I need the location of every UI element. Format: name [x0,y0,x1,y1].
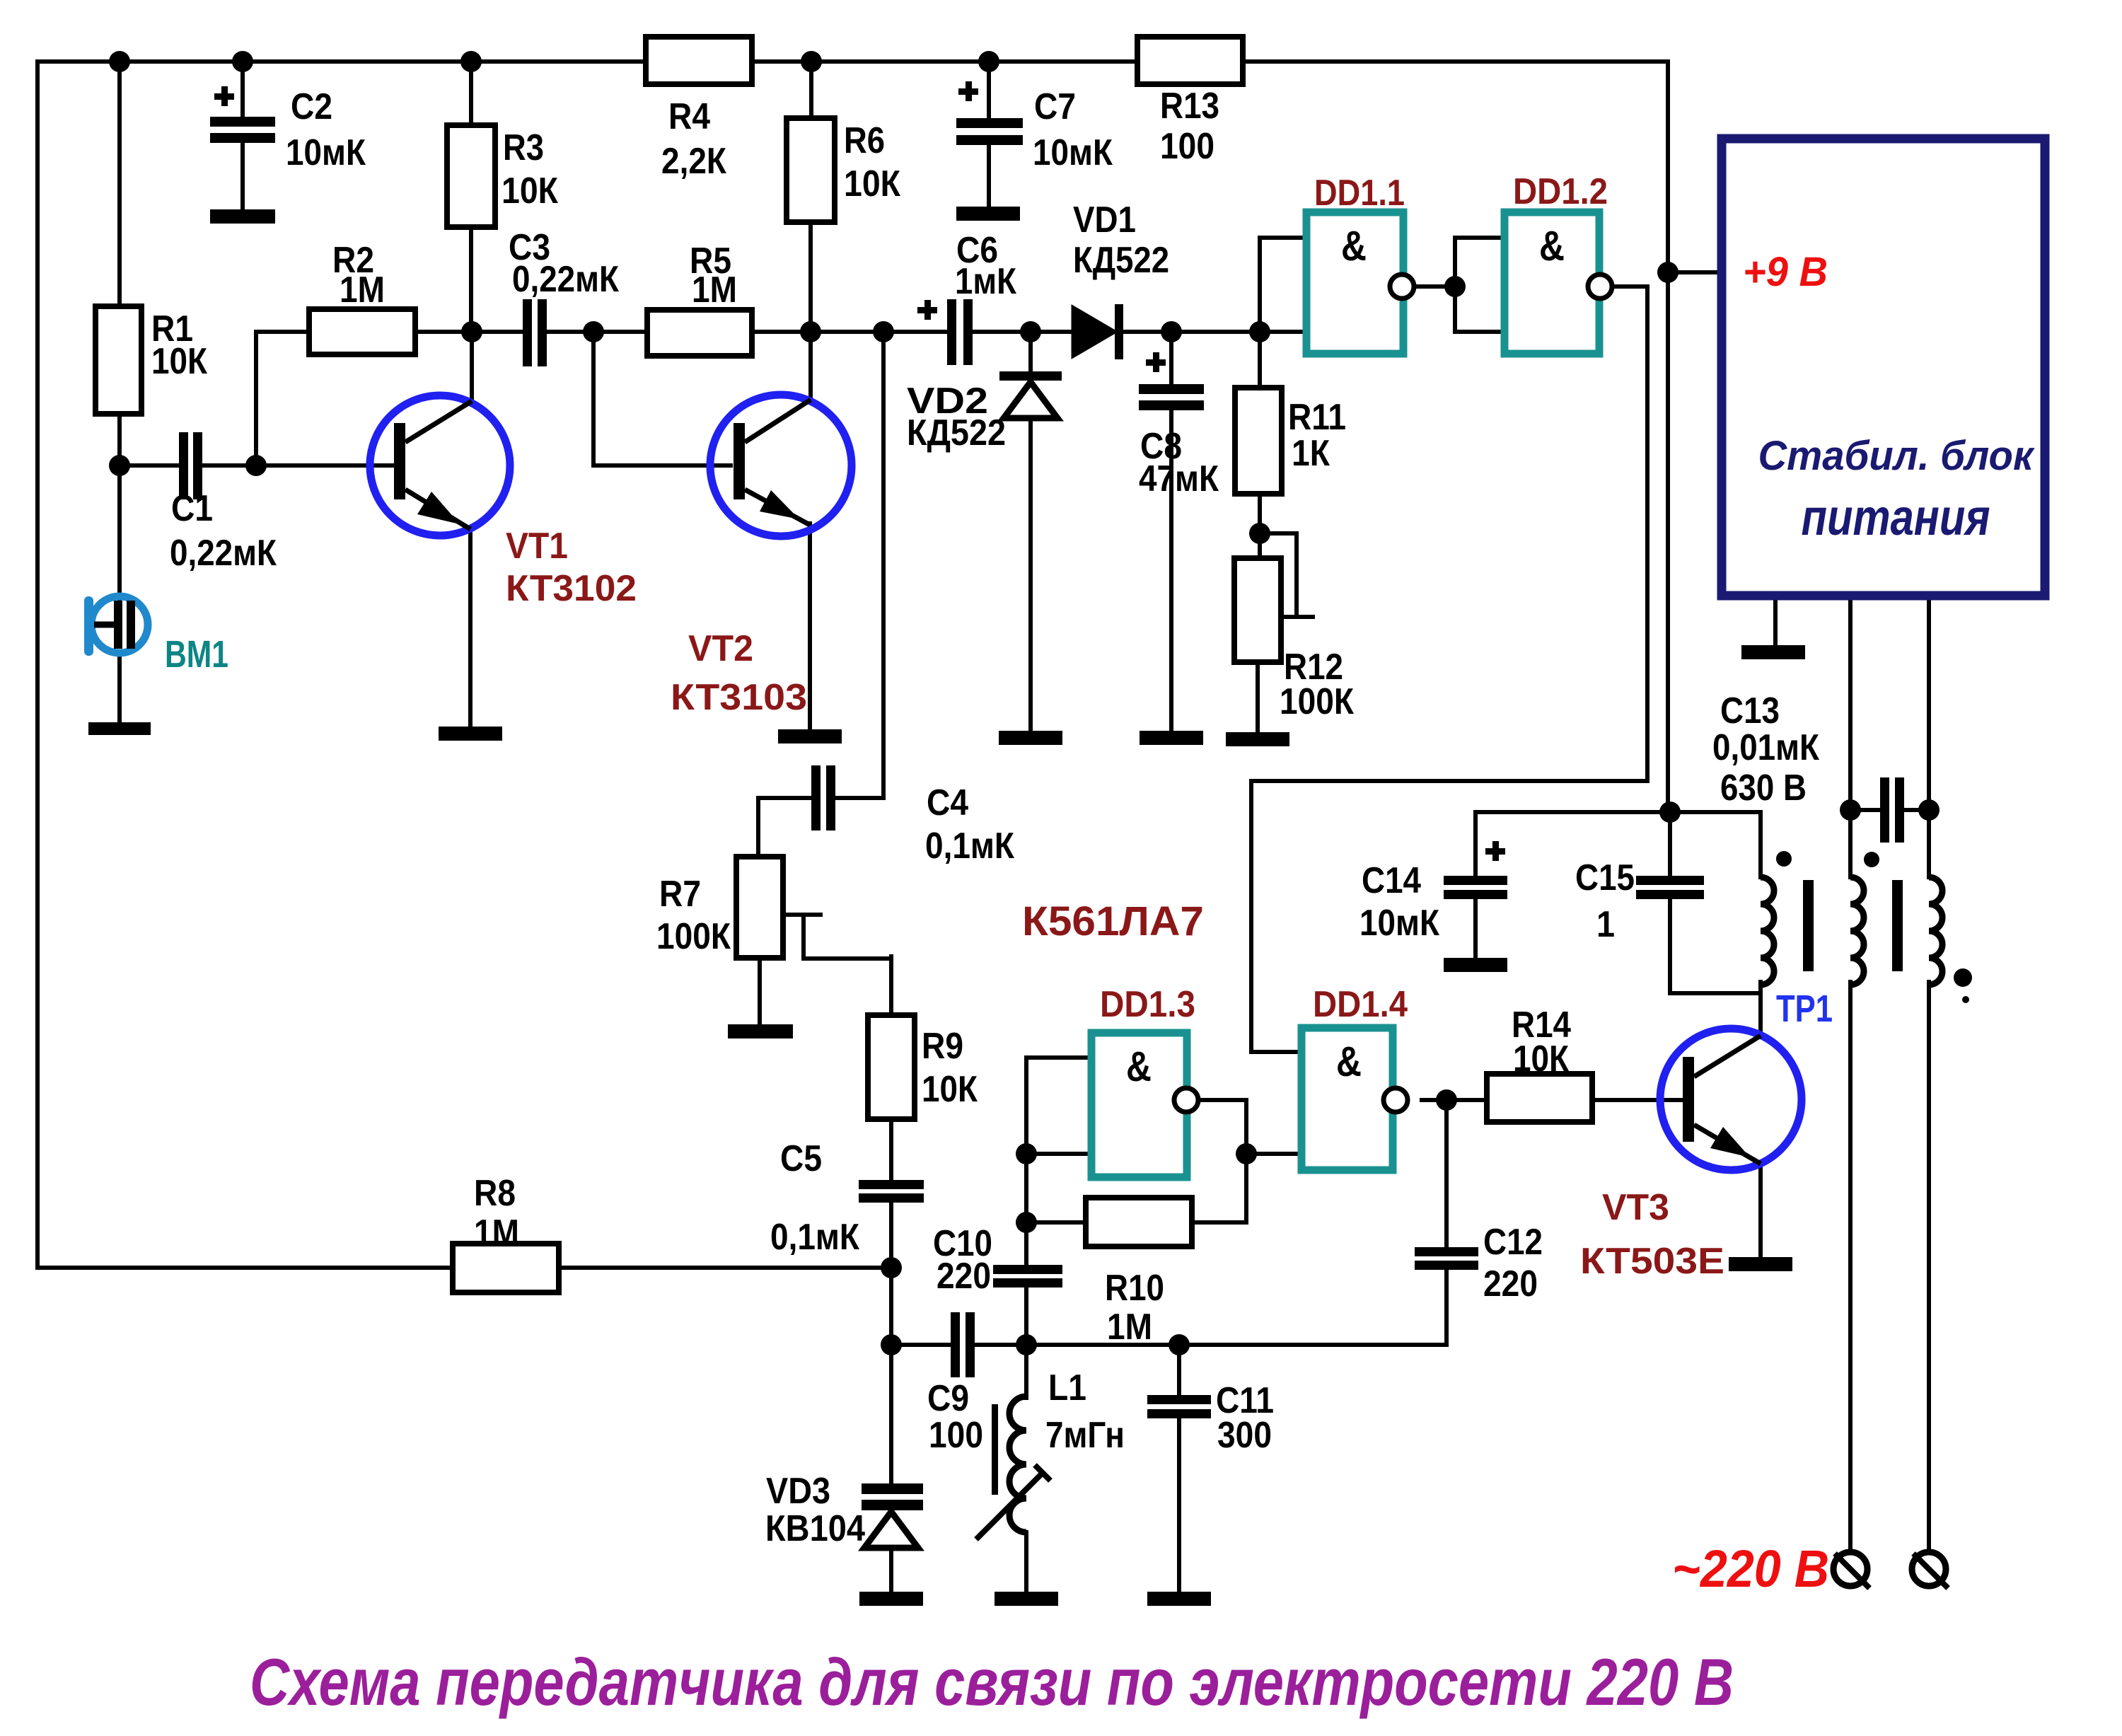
wire C14 bottom to ground [1473,899,1478,958]
capacitor C1 0,22mK plates [179,432,188,499]
svg-text:КТ503Е: КТ503Е [1580,1241,1724,1282]
capacitor C5 0,1mK plates [859,1180,924,1189]
wire C9 left lead [891,1343,951,1347]
wire C15 bottom lead [1668,899,1672,993]
microphone BM1 [84,596,148,656]
wire VT2 collector node to C4 node [811,330,883,334]
wire VD2 anode to ground [1028,418,1033,731]
wire C14 feed from C15 node [1475,812,1670,876]
ground for VT2 [778,729,842,743]
svg-text:100: 100 [929,1415,983,1456]
wire power box left output down (mains L) [1848,596,1853,877]
varicap VD3 triangle [864,1512,918,1548]
svg-text:0,1мК: 0,1мК [925,826,1014,867]
wire R11 node up to DD1.1 input A [1260,238,1303,332]
svg-text:DD1.1: DD1.1 [1314,173,1405,214]
wire C13 right lead [1904,808,1929,812]
node rail-C2 [232,51,253,72]
svg-text:10К: 10К [922,1069,978,1110]
node rail-R6 [801,51,822,72]
NAND gate DD1.1 [1306,212,1414,354]
svg-text:VT3: VT3 [1602,1187,1669,1228]
wire DD1.1 output to tie node [1414,284,1455,289]
wire mic bottom lead to ground [117,652,122,725]
wire C1 to VT1 base node [202,463,256,468]
node A R2/R3/C3/VT1 [461,321,482,342]
wire R6 bottom lead to VT2 collector node [808,222,813,332]
node VD1/R11/DD1.1 [1249,321,1270,342]
svg-text:R8: R8 [474,1173,516,1214]
svg-text:10К: 10К [501,170,558,212]
wire secondary W2 bottom to terminal [1848,982,1853,1552]
wire R5 right lead to VT2 collector node [752,330,811,334]
node TP1 primary polarity dot [1776,851,1792,867]
capacitor C8 47mK plates [1139,384,1204,394]
svg-text:BM1: BM1 [165,633,228,676]
varicap VD3 KV104 plates [862,1483,923,1494]
wire C10 bottom lead [1024,1287,1028,1345]
node C11/C12 [1169,1334,1190,1355]
wire C12 bottom to C11 node [1179,1270,1446,1345]
wire DD1.4 input B stub [1246,1152,1298,1156]
capacitor C2 10mK plates [210,117,275,127]
svg-text:0,22мК: 0,22мК [170,533,277,574]
plus mark C2 [214,86,234,106]
wire VT3 base from R14 [1592,1098,1683,1102]
node C9 left [881,1334,902,1355]
wire signal line node A to C3 [472,330,523,334]
wire VT2 collector [808,332,813,399]
svg-text:VD1: VD1 [1073,199,1136,241]
svg-text:VT2: VT2 [688,628,753,669]
node R8/C5 [881,1257,902,1278]
node R5/R6/VT2-collector [800,321,821,342]
node DD1.1-out tie [1444,276,1466,297]
capacitor C11 300 plates [1147,1395,1211,1404]
transformer TP1 core bar 2 [1892,880,1903,971]
wire mic node to C1 [120,463,179,468]
svg-text:R3: R3 [503,127,544,168]
wire C15 bottom to primary bottom [1670,991,1761,995]
wire R3 top lead from rail [469,62,473,125]
wire C7 to ground [987,145,991,207]
resistor R14 10K [1487,1074,1592,1122]
wire power box ground stub [1773,596,1778,645]
svg-text:C12: C12 [1483,1222,1543,1263]
wire tie node to DD1.2 input B [1455,287,1501,332]
wire R2 right lead to node A [415,330,472,334]
wire C11 top lead [1177,1345,1181,1395]
node TP1 W2 polarity dot [1864,852,1879,867]
node rail-C7 [978,51,999,72]
node C15/C14/TP1 [1659,802,1681,823]
node rail-R1 [109,51,130,72]
wire VD2 cathode to line [1028,332,1033,371]
wire R6 top lead from rail [809,62,813,118]
node C6/VD2 [1020,321,1041,342]
wire DD1.3 input A stub [1026,1055,1088,1060]
node C3/R5/VT2-base [583,321,604,342]
wire R9 bottom to C5 [889,1119,893,1180]
svg-text:питания: питания [1802,490,1990,546]
svg-text:~220 В: ~220 В [1672,1539,1829,1598]
node TP1 W3 polarity dot [1954,968,1972,987]
svg-text:1М: 1М [474,1213,519,1254]
ground for VD2 [999,731,1062,745]
resistor R8 1M [453,1244,559,1292]
node R10/C10 [1016,1212,1037,1233]
wire VT3 emitter to ground [1758,1164,1763,1257]
wire R1 bottom lead to mic node [117,414,122,465]
svg-text:C5: C5 [780,1138,822,1179]
svg-text:220: 220 [1483,1263,1538,1304]
svg-text:Схема передатчика для связи по: Схема передатчика для связи по электросе… [250,1645,1734,1719]
node +9V [1657,262,1679,283]
wire R10 right lead [1192,1220,1246,1225]
resistor R12 100K trimmer [1234,558,1281,662]
wire R7 wiper to R9 [804,915,891,959]
svg-text:+9 В: +9 В [1743,249,1828,295]
svg-text:0,22мК: 0,22мК [512,259,619,300]
wire C8 bottom lead to ground [1169,410,1173,731]
svg-text:К561ЛА7: К561ЛА7 [1022,898,1204,944]
ground for C2 [210,209,275,224]
wire C3 to R5 left node [547,330,647,334]
svg-text:R13: R13 [1160,86,1219,127]
svg-text:VD3: VD3 [766,1471,830,1512]
resistor R2 1M [309,309,415,354]
ground for power supply box [1741,645,1805,659]
wire power box right output down (mains N) [1927,596,1931,877]
svg-text:2,2К: 2,2К [661,141,726,182]
svg-text:100К: 100К [656,916,731,957]
wire C9 node to C11 node [1026,1343,1179,1347]
wire R3 bottom lead to node A [469,227,473,332]
diode VD1 KD522 [1072,305,1118,359]
wire DD1.2 output down and across to DD1.4 input A [1251,287,1647,1052]
wire DD1.4 output to R14 node [1422,1098,1487,1102]
svg-text:C15: C15 [1575,857,1635,898]
svg-text:VT1: VT1 [506,526,568,567]
transformer TP1 winding W2 [1850,877,1864,985]
wire DD1.3 input B stub [1026,1152,1088,1156]
inductor L1 adjuster arrow [976,1473,1043,1539]
node rail-R3 [460,51,482,72]
node DD1.4-out/R14/C12 [1436,1089,1457,1111]
svg-text:&: & [1126,1043,1152,1090]
wire R11 to R12 [1258,494,1262,558]
capacitor C13 0,01mK 630V plates [1880,777,1889,843]
wire C9 right lead [975,1343,1026,1347]
resistor R9 10K [868,1015,915,1119]
resistor R13 100 [1137,37,1243,84]
svg-text:C2: C2 [291,86,332,127]
resistor R10 1M [1086,1198,1192,1246]
resistor R7 100K potentiometer [736,857,783,958]
svg-text:630 В: 630 В [1720,768,1807,809]
svg-text:C1: C1 [171,488,213,529]
wire VD1 cathode to C8 node [1123,330,1171,334]
wire R12 bottom to ground [1256,662,1260,732]
node R11/R12 [1249,523,1270,544]
inductor L1 adjustable core bar [992,1404,998,1495]
svg-text:R4: R4 [668,96,710,137]
svg-text:10мК: 10мК [286,132,366,173]
capacitor C3 0,22mK plates [523,299,532,366]
capacitor C12 220 plates [1415,1247,1478,1256]
node DD1.3-out/DD1.4-in [1236,1143,1257,1164]
wire VT1 emitter to ground [468,529,472,727]
wire C7 drop from rail [987,62,991,118]
wire L1 bottom to ground [1024,1532,1028,1592]
plus mark C7 [958,81,978,101]
resistor R1 10K [95,306,141,414]
svg-text:C14: C14 [1362,860,1421,901]
wire C4 left lead to R7 [758,798,811,857]
transistor VT2 KT3103 [710,395,852,536]
svg-text:C4: C4 [927,782,968,823]
node C13 right [1918,799,1940,821]
wire secondary W3 bottom to terminal [1927,982,1931,1552]
plus mark C6 [917,300,937,320]
svg-text:ТР1: ТР1 [1776,988,1833,1030]
svg-text:КД522: КД522 [1073,240,1169,281]
power supply box (Stabil. blok pitaniya) [1722,139,2045,596]
transformer TP1 core bar 1 [1803,880,1814,971]
ground for C7 [956,207,1020,221]
resistor R11 1K [1235,388,1282,494]
wire R8 node down to C9 node [889,1268,893,1345]
wire C4 right lead [835,796,883,800]
transistor VT3 KT503E [1660,1029,1802,1170]
capacitor C10 220 plates [993,1265,1062,1274]
svg-text:1мК: 1мК [955,261,1016,302]
wire C6 to VD2 node [973,330,1025,334]
svg-text:КД522: КД522 [907,412,1006,453]
svg-text:R6: R6 [844,120,885,161]
svg-text:100К: 100К [1280,681,1354,722]
node C1/R2/VT1-base [245,455,267,476]
svg-text:DD1.2: DD1.2 [1513,171,1608,212]
wire R11 node to DD1.1 input B [1260,330,1303,334]
svg-text:C7: C7 [1034,86,1076,127]
ground for R7 [728,1024,793,1038]
svg-text:10К: 10К [1513,1038,1569,1080]
svg-text:КВ104: КВ104 [765,1508,865,1549]
inductor L1 7mGn winding [1009,1396,1026,1532]
NAND gate DD1.2 [1504,212,1612,354]
NAND gate DD1.3 [1091,1033,1198,1177]
svg-text:10К: 10К [844,163,900,204]
wire top supply rail [37,59,1668,64]
transformer TP1 winding W1 (primary) [1761,877,1774,985]
svg-text:R9: R9 [922,1026,963,1067]
diode VD2 KD522 (cathode bar and up triangle) [999,371,1062,381]
capacitor C15 1 plates [1636,876,1704,885]
svg-text:100: 100 [1160,126,1214,167]
svg-text:L1: L1 [1048,1367,1086,1408]
node C13 left [1840,799,1861,821]
wire VD3 bottom to ground [889,1549,893,1592]
capacitor C6 1mK plates [947,299,956,365]
wire VT2 base node drop [593,332,731,465]
wire DD1.2 output to down corner [1612,284,1647,289]
capacitor C4 0,1mK plates [811,765,821,831]
svg-text:C13: C13 [1720,690,1780,731]
wire R11 top lead [1258,332,1262,388]
svg-text:10мК: 10мК [1033,132,1113,173]
svg-text:10К: 10К [151,341,207,382]
svg-text:DD1.4: DD1.4 [1313,984,1408,1025]
wire C5 bottom to R8 node [889,1203,893,1268]
resistor R3 10K [447,125,495,227]
wire C9 node down to VD3 [889,1345,893,1483]
wire DD1.3 input line vertical [1024,1058,1028,1222]
svg-text:1М: 1М [692,270,737,311]
wire C2 drop from rail [240,62,245,117]
resistor R6 10K [787,118,835,222]
wire mic top lead [117,465,122,598]
plus mark C8 [1146,352,1166,372]
node C1/R1/mic [109,455,130,476]
ground for mic BM1 [88,722,151,735]
wire VD2 node to VD1 anode [1025,330,1073,334]
svg-text:1К: 1К [1292,433,1330,474]
NAND gate DD1.4 [1301,1028,1408,1170]
svg-text:R7: R7 [659,874,701,915]
svg-text:7мГн: 7мГн [1045,1415,1125,1456]
wire VT1 base node to base plate [256,463,394,468]
svg-text:DD1.3: DD1.3 [1100,984,1195,1025]
wire C10 top lead [1024,1222,1028,1265]
wire C15 top lead [1668,812,1672,876]
svg-text:220: 220 [937,1256,991,1297]
svg-text:Стабил. блок: Стабил. блок [1758,433,2036,479]
wire VT1 collector to node A [470,332,474,400]
svg-text:1М: 1М [340,270,385,311]
wire R2 left lead down to VT1 base node [256,332,309,465]
wire R1 top lead from rail [117,62,122,306]
ground for C8 [1140,731,1203,745]
resistor R5 1M [647,310,752,356]
ground for C11 [1147,1592,1211,1606]
ground for C14 [1444,958,1507,972]
transformer TP1 winding W3 [1929,877,1942,985]
wire +9V node to power supply box [1668,270,1722,274]
wire R8 right lead to C5 node [559,1266,892,1270]
capacitor C9 100 plates [951,1312,960,1377]
svg-text:C9: C9 [927,1378,969,1419]
svg-text:&: & [1539,223,1565,270]
wire R12 wiper bar [1272,615,1313,619]
svg-text:1М: 1М [1107,1307,1152,1348]
svg-text:300: 300 [1217,1415,1272,1456]
capacitor C7 10mK plates [956,118,1023,128]
ground for VT1 [439,727,502,741]
svg-text:R10: R10 [1105,1268,1164,1309]
ground for L1 [995,1592,1058,1606]
svg-text:R11: R11 [1288,397,1346,438]
ground for VT3 [1729,1257,1792,1271]
svg-text:47мК: 47мК [1139,458,1219,499]
wire R14 node down to C12 [1444,1100,1449,1247]
svg-text:&: & [1336,1038,1362,1085]
node C4 tap [873,321,894,342]
svg-text:10мК: 10мК [1359,903,1439,944]
wire +9V rail corner down [1666,62,1670,812]
wire R7 wiper arm [783,913,821,917]
ground for R12 [1226,732,1289,746]
wire C4 node drop [881,332,886,798]
wire C4 node to C6 [883,330,947,334]
wire L1 top lead [1024,1345,1028,1398]
plus mark C14 [1485,841,1505,861]
wire C13 left lead [1850,808,1880,812]
wire R9 top lead [889,956,893,1015]
capacitor C14 10mK plates [1444,876,1507,885]
wire C8 top lead [1169,332,1173,384]
transistor VT1 KT3102 [370,395,510,536]
wire C8 node to R11 node [1171,330,1260,334]
wire R10 left lead [1026,1220,1086,1225]
svg-text:1: 1 [1596,904,1615,945]
wire R12 wiper tap [1260,533,1297,617]
wire VT2 emitter to ground [808,523,812,729]
terminal socket left ~220V [1833,1552,1867,1586]
wire DD1.3 output to DD1.4 input B [1198,1100,1246,1222]
terminal socket right ~220V [1912,1552,1946,1586]
wire left rail down to R8 line [37,62,453,1268]
resistor R4 2,2K [646,37,752,84]
svg-text:&: & [1341,223,1367,270]
node VD1/C8 [1161,321,1182,342]
wire R7 bottom to ground [758,958,762,1024]
wire C2 to ground [240,141,245,209]
ground for VD3 [859,1592,923,1606]
wire tie node to DD1.2 input A [1455,238,1501,287]
node DD1.3 inputs [1016,1143,1037,1164]
wire C15 node to transformer primary top [1670,810,1761,814]
node C9/C10/L1 [1016,1334,1037,1355]
svg-text:КТ3103: КТ3103 [671,677,807,718]
svg-text:0,01мК: 0,01мК [1712,727,1819,768]
svg-text:КТ3102: КТ3102 [506,568,637,609]
wire primary bottom to VT3 collector [1758,982,1763,1035]
wire transformer primary top lead [1758,812,1763,877]
wire C11 bottom to ground [1177,1420,1181,1592]
svg-text:0,1мК: 0,1мК [770,1217,859,1258]
